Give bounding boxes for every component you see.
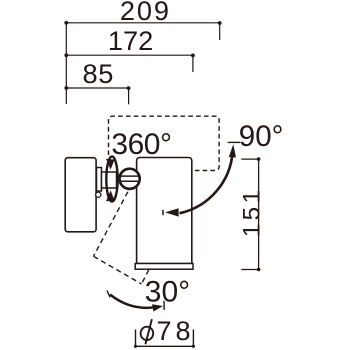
extension line left <box>65 23 67 104</box>
ellipse arrowhead top <box>106 159 115 170</box>
tilt arc tick left <box>107 291 110 298</box>
dimension 151 <box>241 157 260 271</box>
svg-text:30°: 30° <box>145 276 190 309</box>
swing envelope dashed box (360 deg) <box>109 116 220 170</box>
dimension 172 line <box>64 53 194 72</box>
knob <box>120 169 140 189</box>
dimension 209 line <box>64 21 221 40</box>
90 deg swing arc <box>180 151 233 213</box>
phi symbol <box>141 327 154 340</box>
mount small circle <box>96 192 101 197</box>
knob screw slot <box>121 175 138 177</box>
arc arrowhead left <box>165 208 179 216</box>
tilt arc arrowhead <box>152 304 163 311</box>
rotation ellipse <box>106 156 117 201</box>
svg-text:151: 151 <box>239 187 266 238</box>
dimension phi78 <box>134 330 195 348</box>
dimension 85 line <box>64 86 130 104</box>
tilted body dashed outline <box>94 184 153 284</box>
ellipse arrowhead bottom <box>106 190 115 201</box>
wall plate <box>65 158 96 232</box>
arc arrowhead up <box>229 144 236 157</box>
arm bar <box>102 172 117 188</box>
bottom rim <box>135 264 193 270</box>
svg-text:90°: 90° <box>239 120 284 153</box>
arc end tick <box>162 210 164 215</box>
arm flange <box>97 168 102 192</box>
svg-text:209: 209 <box>120 0 171 26</box>
svg-text:360°: 360° <box>111 128 171 161</box>
svg-text:78: 78 <box>157 316 195 346</box>
lamp body <box>137 158 192 264</box>
svg-text:172: 172 <box>108 25 153 56</box>
svg-text:85: 85 <box>83 58 114 89</box>
90 deg position tick <box>228 141 241 143</box>
30 deg tilt arc <box>110 295 158 308</box>
tilt arc tick right <box>163 301 165 310</box>
